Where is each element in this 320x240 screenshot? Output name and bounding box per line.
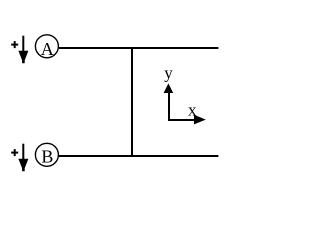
x-axis line — [168, 119, 196, 121]
svg-text:B: B — [41, 146, 53, 166]
y-axis line — [168, 88, 170, 121]
wire vertical connector — [131, 47, 133, 157]
current source B arrow — [18, 144, 28, 172]
current source A arrow — [18, 36, 28, 64]
ammeter B circle — [35, 143, 58, 166]
current source B plus sign — [11, 149, 18, 156]
current source A plus sign — [11, 41, 18, 48]
x-axis arrowhead — [194, 115, 206, 125]
wire top horizontal — [59, 47, 218, 49]
ammeter A circle — [35, 35, 58, 58]
y-axis arrowhead — [164, 83, 174, 93]
svg-text:x: x — [188, 100, 197, 119]
svg-text:A: A — [41, 39, 54, 59]
svg-text:y: y — [164, 63, 173, 82]
wire bottom horizontal — [59, 155, 218, 157]
